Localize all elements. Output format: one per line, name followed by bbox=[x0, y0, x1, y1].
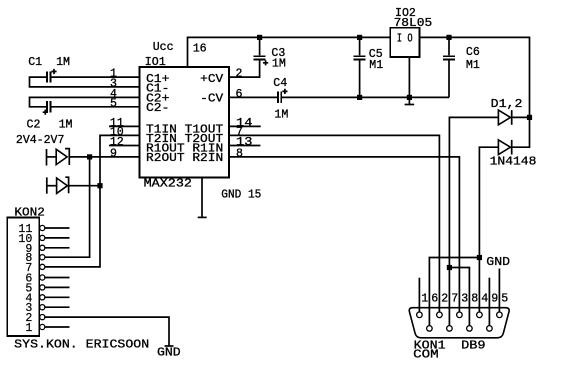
C1 plus sign bbox=[51, 69, 56, 74]
svg-text:8: 8 bbox=[236, 148, 243, 161]
C4 plus sign bbox=[282, 89, 287, 94]
svg-text:GND 15: GND 15 bbox=[221, 188, 261, 201]
KON2 pin 5 circle and stub bbox=[40, 285, 45, 290]
ground bar pin15 bbox=[198, 216, 207, 218]
svg-text:M1: M1 bbox=[466, 59, 480, 72]
svg-text:3: 3 bbox=[461, 292, 468, 305]
svg-text:1M: 1M bbox=[59, 118, 73, 131]
junction on pin9 row bbox=[87, 154, 92, 159]
DB9 pin 1 circle bbox=[417, 312, 423, 318]
ground bar KON2 bbox=[165, 345, 174, 347]
wire MAX232 pin13 stub bbox=[229, 145, 260, 147]
svg-text:C1: C1 bbox=[28, 56, 42, 69]
zener Z1 anode lead bbox=[47, 156, 57, 158]
capacitor C4 plates bbox=[278, 92, 281, 103]
wire MAX232 pin7 to DB9 pin2 bbox=[229, 135, 439, 312]
DB9 pin 9 circle bbox=[487, 326, 493, 332]
DB9 pin 7 circle bbox=[447, 326, 453, 332]
wire branch to DB9 pin8 bbox=[449, 268, 469, 326]
capacitor C2 plates bbox=[47, 101, 50, 112]
KON2 pin 9 circle and stub bbox=[40, 245, 45, 250]
wire MAX232 pin10 down to KON2 pin7 bbox=[44, 135, 139, 267]
svg-text:2: 2 bbox=[236, 68, 243, 81]
wire C1 left loop to pin3 bbox=[30, 77, 140, 87]
wire IO2 ground pin bbox=[408, 57, 410, 104]
svg-text:9: 9 bbox=[491, 292, 498, 305]
svg-text:1M: 1M bbox=[274, 108, 288, 121]
svg-text:COM: COM bbox=[413, 349, 439, 362]
svg-text:1: 1 bbox=[421, 292, 428, 305]
wire MAX232 pin8 to DB9 pin3 bbox=[229, 157, 459, 312]
zener Z1 triangle bbox=[56, 149, 67, 164]
svg-text:1M: 1M bbox=[56, 56, 70, 69]
svg-text:I O: I O bbox=[397, 32, 413, 45]
svg-text:C4: C4 bbox=[273, 77, 287, 90]
capacitor C5 bottom wire bbox=[359, 60, 361, 97]
svg-text:1: 1 bbox=[25, 322, 32, 335]
zener Z2 triangle bbox=[57, 178, 68, 193]
svg-text:+CV: +CV bbox=[200, 73, 223, 86]
connector KON2 body bbox=[7, 218, 39, 337]
zener Z2 anode lead bbox=[47, 185, 57, 187]
svg-text:6: 6 bbox=[236, 88, 243, 101]
wire MAX232 pin14 stub bbox=[229, 125, 261, 127]
wire GND to DB9 pin5 bbox=[498, 269, 500, 313]
DB9 pin 6 circle bbox=[427, 326, 433, 332]
KON2 pin 6 circle and stub bbox=[40, 275, 45, 280]
C3 plus sign bbox=[263, 60, 268, 65]
wire KON2 pin2 to ground bbox=[44, 317, 169, 346]
junction C6 on rail bbox=[446, 35, 451, 40]
wire DB9 pin1 stub bbox=[418, 278, 420, 313]
capacitor C1 plates bbox=[47, 72, 50, 83]
zener Z2 cathode bar with tick bbox=[65, 177, 68, 193]
svg-text:8: 8 bbox=[471, 292, 478, 305]
svg-text:-CV: -CV bbox=[200, 93, 223, 106]
svg-text:6: 6 bbox=[431, 292, 438, 305]
zener diode Z1 anode bar bbox=[46, 149, 48, 166]
svg-text:5: 5 bbox=[110, 97, 117, 110]
svg-text:C2-: C2- bbox=[146, 102, 169, 115]
KON2 pin 3 circle and stub bbox=[40, 305, 45, 310]
junction D1 branch bbox=[447, 265, 452, 270]
junction C5 on ground rail bbox=[357, 95, 362, 100]
svg-text:C6: C6 bbox=[466, 46, 480, 59]
svg-text:2: 2 bbox=[441, 292, 448, 305]
capacitor C5 plates bbox=[354, 56, 366, 59]
svg-text:4: 4 bbox=[481, 292, 488, 305]
svg-text:MAX232: MAX232 bbox=[144, 177, 192, 190]
svg-text:16: 16 bbox=[193, 42, 207, 55]
svg-text:9: 9 bbox=[110, 148, 117, 161]
svg-text:DB9: DB9 bbox=[461, 339, 486, 352]
wire junction down to KON2 pin8 bbox=[44, 157, 89, 257]
IC IO1 MAX232 body bbox=[140, 67, 230, 178]
wire zener cathode row to MAX232 pin9 bbox=[69, 156, 139, 158]
svg-text:1M: 1M bbox=[272, 57, 286, 70]
zener diode Z2 anode bar bbox=[46, 177, 48, 193]
svg-text:GND: GND bbox=[486, 256, 510, 269]
capacitor C5 top wire bbox=[359, 37, 361, 55]
svg-text:C2: C2 bbox=[27, 118, 41, 131]
KON2 pin 2 circle bbox=[40, 315, 45, 320]
wire C4 to ground rail bbox=[282, 96, 449, 98]
wire MAX232 pin11 stub bbox=[109, 125, 140, 127]
KON2 pin 8 circle bbox=[40, 255, 45, 260]
junction on zener2 row bbox=[97, 183, 102, 188]
wire MAX232 pin4 loop down to pin5 row bbox=[30, 97, 140, 106]
zener Z1 cathode bar with tick bbox=[65, 149, 69, 165]
DB9 pin 8 circle bbox=[467, 326, 473, 332]
capacitor C6 bottom wire bbox=[448, 60, 450, 97]
svg-text:GND: GND bbox=[157, 347, 181, 360]
svg-text:SYS.KON. ERICSOON: SYS.KON. ERICSOON bbox=[14, 339, 149, 352]
svg-text:D1,2: D1,2 bbox=[491, 98, 523, 111]
KON2 pin 11 circle and stub bbox=[40, 225, 45, 230]
svg-text:M1: M1 bbox=[369, 59, 383, 72]
C2 plus sign bbox=[43, 110, 48, 115]
KON2 pin 1 circle and stub bbox=[40, 324, 45, 329]
KON2 pin 4 circle and stub bbox=[40, 295, 45, 300]
junction IO2 ground on rail bbox=[407, 95, 412, 100]
wire D2 anode from DB9 pin4 column bbox=[479, 147, 498, 312]
wire MAX232 pin6 to C4 bbox=[229, 96, 277, 98]
ground bar IO2 bbox=[405, 104, 415, 106]
svg-text:1N4148: 1N4148 bbox=[490, 156, 537, 169]
wire C2 to MAX232 pin5 bbox=[50, 106, 139, 108]
junction D1 cathode node bbox=[527, 115, 532, 120]
capacitor C6 top wire bbox=[448, 37, 450, 55]
DB9 pin 4 circle bbox=[477, 312, 483, 318]
junction C3 on rail bbox=[257, 35, 262, 40]
connector KON1 DB9 shell bbox=[409, 308, 509, 338]
wire D1 anode from DB9 pin7 column bbox=[449, 117, 498, 325]
svg-text:Ucc: Ucc bbox=[153, 41, 174, 54]
capacitor C6 plates bbox=[443, 56, 455, 59]
DB9 pin 5 circle bbox=[497, 312, 503, 318]
wire pin16 to Vcc rail bbox=[188, 37, 391, 67]
wire MAX232 pin1 to C1 bbox=[50, 76, 139, 78]
wire D1 cathode to rail vertical bbox=[512, 116, 530, 118]
svg-text:IO1: IO1 bbox=[145, 56, 166, 69]
capacitor C3 plates bbox=[254, 56, 266, 59]
diode D2 triangle bbox=[498, 140, 510, 155]
diode D1 triangle bbox=[498, 110, 510, 125]
wire Vcc rail right of IO2 to diode junction bbox=[419, 37, 529, 147]
wire DB9 pin9 stub bbox=[488, 278, 490, 326]
wire MAX232 pin12 stub bbox=[109, 145, 140, 147]
diode D2 cathode bar bbox=[511, 140, 513, 155]
KON2 pin 7 circle bbox=[40, 264, 45, 269]
diode D1 cathode bar bbox=[511, 110, 513, 125]
svg-text:5: 5 bbox=[501, 292, 508, 305]
KON2 pin 10 circle and stub bbox=[40, 235, 45, 240]
wire zener Z2 to pin10 vertical bbox=[69, 185, 100, 187]
DB9 pin 2 circle bbox=[437, 312, 443, 318]
svg-text:7: 7 bbox=[451, 292, 458, 305]
wire C3 top to Vcc rail bbox=[259, 37, 261, 55]
wire MAX232 pin2 to C3 bbox=[229, 60, 260, 77]
regulator IO2 78L05 body bbox=[390, 28, 419, 57]
svg-text:R2OUT R2IN: R2OUT R2IN bbox=[146, 152, 223, 165]
wire MAX232 pin15 ground bbox=[201, 178, 203, 217]
wire branch to DB9 pin6 bbox=[429, 258, 479, 326]
DB9 pin 3 circle bbox=[457, 312, 463, 318]
junction D2 branch bbox=[477, 255, 482, 260]
svg-text:2V4-2V7: 2V4-2V7 bbox=[16, 134, 65, 147]
junction C5 on rail bbox=[357, 35, 362, 40]
